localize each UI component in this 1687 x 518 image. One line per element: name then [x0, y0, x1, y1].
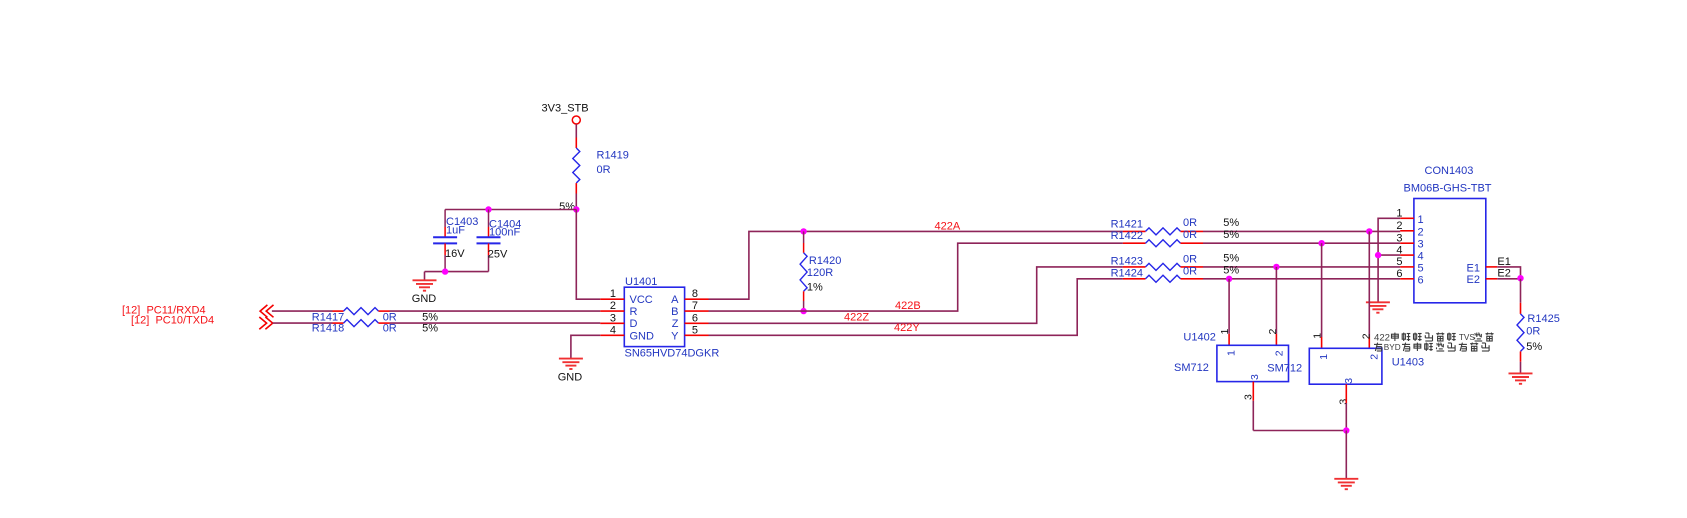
svg-text:1%: 1%: [807, 282, 823, 294]
off-page connector chevron TXD (right): [265, 317, 272, 329]
svg-text:E2: E2: [1497, 267, 1510, 279]
svg-text:B: B: [671, 306, 678, 318]
svg-text:1: 1: [1311, 333, 1323, 339]
ground symbol below R1425: [1509, 373, 1533, 383]
svg-text:5%: 5%: [1223, 253, 1239, 265]
svg-text:R1421: R1421: [1111, 219, 1143, 231]
junction C1404 top: [485, 206, 491, 212]
svg-text:R1422: R1422: [1111, 230, 1143, 242]
resistor R1419: [573, 148, 580, 183]
svg-text:0R: 0R: [1183, 229, 1197, 241]
U1401 pin 7 stub: [685, 310, 709, 312]
wire TXD to R1418: [273, 322, 333, 324]
svg-text:422: 422: [1374, 332, 1390, 343]
wire R1425 to ground: [1520, 351, 1522, 361]
wire 422B junction down to U1403 pin 1: [1321, 243, 1323, 337]
wire 422Y junction down to U1402 pin 1: [1228, 279, 1230, 334]
U1401 pin 1 stub: [600, 298, 624, 300]
wire 422B from U1401 pin 7: [709, 243, 1123, 311]
CON1403 pin E1 stub: [1486, 266, 1497, 268]
CON1403 pin 3 stub: [1400, 242, 1414, 244]
U1401 pin 4 stub: [600, 334, 624, 336]
wire E1 E2 join: [1497, 267, 1520, 279]
junction R1420 top on 422A: [800, 228, 806, 234]
annotation note line 1: [1374, 332, 1494, 343]
junction R1420 bottom on 422B: [800, 308, 806, 314]
ground symbol below capacitors: [413, 280, 437, 290]
svg-text:0R: 0R: [1183, 217, 1197, 229]
svg-text:D: D: [630, 318, 638, 330]
svg-text:5: 5: [1418, 262, 1424, 274]
junction 422Z to U1402 pin 2: [1273, 264, 1279, 270]
svg-text:1: 1: [1318, 354, 1330, 360]
wire E2 to R1425: [1520, 279, 1522, 303]
svg-text:BYD: BYD: [1384, 343, 1401, 352]
CON1403 pin 4 stub: [1400, 254, 1414, 256]
wire capacitors to ground: [425, 271, 489, 273]
resistor R1418: [344, 320, 379, 327]
svg-text:5%: 5%: [1223, 229, 1239, 241]
U1403 pin 3 wire: [1345, 384, 1347, 403]
U1401 pin 6 stub: [685, 322, 709, 324]
svg-text:R1417: R1417: [312, 311, 344, 323]
svg-text:A: A: [671, 294, 679, 306]
off-page connector chevron RXD (left): [260, 305, 267, 317]
svg-text:3: 3: [1337, 399, 1349, 405]
svg-text:SM712: SM712: [1174, 362, 1209, 374]
svg-text:3V3_STB: 3V3_STB: [542, 103, 589, 115]
svg-text:GND: GND: [630, 330, 655, 342]
svg-text:5%: 5%: [1223, 264, 1239, 276]
svg-text:3: 3: [1396, 232, 1402, 244]
svg-text:422A: 422A: [935, 220, 961, 232]
svg-text:5: 5: [692, 324, 698, 336]
svg-text:2: 2: [1361, 333, 1373, 339]
op-amp U1401 body: [624, 287, 684, 346]
resistor R1424: [1123, 278, 1146, 280]
wire R1418 to U1401 pin 3: [379, 322, 390, 324]
svg-text:422Z: 422Z: [844, 311, 869, 323]
svg-text:R1418: R1418: [312, 323, 344, 335]
svg-text:U1401: U1401: [625, 276, 657, 288]
svg-text:120R: 120R: [807, 267, 833, 279]
resistor R1423: [1123, 266, 1146, 268]
svg-text:1: 1: [1418, 214, 1424, 226]
svg-text:2: 2: [610, 300, 616, 312]
wire 3V3 node to U1401 pin 1: [576, 210, 600, 300]
svg-text:5: 5: [1396, 256, 1402, 268]
svg-text:3: 3: [1418, 239, 1424, 251]
ground symbol below TVS diodes: [1334, 479, 1358, 489]
svg-text:2: 2: [1267, 329, 1279, 335]
wire 422Y from U1401 pin 5: [709, 279, 1123, 336]
svg-text:GND: GND: [558, 372, 583, 384]
svg-text:1: 1: [610, 288, 616, 300]
svg-text:R1423: R1423: [1111, 256, 1143, 268]
TVS diode U1403 body: [1309, 348, 1382, 384]
svg-text:0R: 0R: [1526, 326, 1540, 338]
wire 3V3_STB to R1419: [575, 124, 577, 137]
junction R1419 bottom: [573, 206, 579, 212]
CON1403 pin 5 stub: [1400, 266, 1414, 268]
svg-text:E2: E2: [1467, 274, 1480, 286]
resistor R1425: [1517, 314, 1524, 352]
capacitor C1403: [433, 210, 457, 272]
svg-text:2: 2: [1396, 220, 1402, 232]
svg-text:SM712: SM712: [1267, 363, 1302, 375]
svg-text:E1: E1: [1467, 262, 1480, 274]
svg-text:[12] PC10/TXD4: [12] PC10/TXD4: [131, 315, 214, 327]
svg-text:5%: 5%: [1526, 341, 1542, 353]
junction TVS ground node: [1343, 427, 1349, 433]
svg-text:6: 6: [1396, 268, 1402, 280]
CON1403 pin 2 stub: [1400, 230, 1414, 232]
wire 422Z from U1401 pin 6: [709, 267, 1123, 323]
U1402 pin 3 wire: [1252, 382, 1254, 401]
svg-text:R1424: R1424: [1111, 267, 1143, 279]
svg-text:1: 1: [1225, 350, 1237, 356]
svg-text:TVS: TVS: [1459, 333, 1475, 342]
wire TVS commons to ground: [1253, 430, 1346, 432]
svg-text:8: 8: [692, 288, 698, 300]
svg-text:6: 6: [1418, 274, 1424, 286]
resistor R1421: [1123, 230, 1146, 232]
svg-text:CON1403: CON1403: [1425, 165, 1474, 177]
svg-text:0R: 0R: [383, 311, 397, 323]
svg-text:6: 6: [692, 312, 698, 324]
wire R1424 to connector pin 6: [1203, 278, 1400, 280]
svg-text:U1402: U1402: [1183, 331, 1215, 343]
svg-text:16V: 16V: [445, 248, 465, 260]
svg-text:4: 4: [610, 324, 616, 336]
junction 422A to U1403 pin 2: [1366, 228, 1372, 234]
junction 422Y to U1402 pin 1: [1226, 276, 1232, 282]
resistor R1422: [1123, 242, 1146, 244]
junction pin4 gnd tie: [1375, 252, 1381, 258]
svg-text:0R: 0R: [1183, 254, 1197, 266]
svg-text:R1419: R1419: [597, 149, 629, 161]
svg-text:Y: Y: [671, 330, 679, 342]
CON1403 pin E2 stub: [1486, 278, 1497, 280]
CON1403 pin 6 stub: [1400, 278, 1414, 280]
wire R1421 to connector pin 2: [1203, 230, 1400, 232]
svg-text:4: 4: [1418, 251, 1424, 263]
svg-text:7: 7: [692, 300, 698, 312]
svg-text:GND: GND: [412, 293, 437, 305]
wire down to ground: [1345, 431, 1347, 479]
svg-text:3: 3: [610, 312, 616, 324]
wire R1422 to connector pin 3: [1203, 242, 1400, 244]
svg-text:2: 2: [1418, 226, 1424, 238]
connector CON1403 body: [1414, 199, 1486, 303]
TVS diode U1402 body: [1217, 345, 1289, 381]
svg-text:422Y: 422Y: [894, 322, 920, 334]
junction C1403 bottom: [442, 268, 448, 274]
svg-text:SN65HVD74DGKR: SN65HVD74DGKR: [625, 348, 720, 360]
wire 422A from U1401 pin 8: [709, 231, 1123, 299]
svg-text:2: 2: [1368, 354, 1380, 360]
CON1403 pin 1 stub: [1400, 217, 1414, 219]
wire R1423 to connector pin 5: [1203, 266, 1400, 268]
svg-text:1uF: 1uF: [446, 225, 465, 237]
svg-text:100nF: 100nF: [489, 227, 520, 239]
svg-text:25V: 25V: [488, 249, 508, 261]
capacitor C1404: [477, 210, 501, 272]
ground symbol below CON1403: [1366, 302, 1390, 312]
svg-text:1: 1: [1219, 329, 1231, 335]
svg-text:U1403: U1403: [1392, 357, 1424, 369]
U1401 pin 3 stub: [600, 322, 624, 324]
svg-text:Z: Z: [672, 318, 679, 330]
svg-text:R: R: [630, 306, 638, 318]
U1401 pin 2 stub: [600, 310, 624, 312]
svg-text:R1425: R1425: [1527, 313, 1559, 325]
U1401 pin 5 stub: [685, 334, 709, 336]
resistor R1417: [344, 308, 379, 315]
wire 422Z junction down to U1402 pin 2: [1275, 267, 1277, 334]
wire U1401 pin 4 to ground: [571, 335, 600, 358]
svg-text:BM06B-GHS-TBT: BM06B-GHS-TBT: [1404, 183, 1492, 195]
wire R1419 to node: [575, 183, 577, 193]
svg-text:3: 3: [1249, 374, 1261, 380]
svg-text:5%: 5%: [422, 323, 438, 335]
ground symbol below U1401: [559, 359, 583, 369]
svg-text:5%: 5%: [1223, 217, 1239, 229]
U1401 pin 8 stub: [685, 298, 709, 300]
junction 422B to U1403 pin 1: [1318, 240, 1324, 246]
annotation note line 2: [1374, 343, 1489, 353]
junction E2 node: [1517, 275, 1523, 281]
svg-text:422B: 422B: [895, 300, 921, 312]
wire R1417 to U1401 pin 2: [379, 310, 390, 312]
svg-text:R1420: R1420: [809, 255, 841, 267]
svg-text:0R: 0R: [383, 323, 397, 335]
wire node to capacitors: [445, 209, 576, 211]
wire RXD to R1417: [272, 310, 333, 312]
svg-text:VCC: VCC: [630, 294, 653, 306]
svg-text:0R: 0R: [597, 164, 611, 176]
svg-text:0R: 0R: [1183, 265, 1197, 277]
resistor R1420 termination: [803, 231, 805, 252]
svg-text:E1: E1: [1497, 256, 1510, 268]
svg-text:5%: 5%: [559, 201, 575, 213]
wire CON1403 pins 1 and 4 to ground: [1378, 218, 1400, 301]
svg-text:5%: 5%: [422, 311, 438, 323]
svg-text:3: 3: [1343, 378, 1355, 384]
power symbol 3V3_STB pin circle: [572, 116, 580, 124]
wire 422A junction down to U1403 pin 2: [1368, 231, 1370, 337]
svg-text:2: 2: [1273, 350, 1285, 356]
